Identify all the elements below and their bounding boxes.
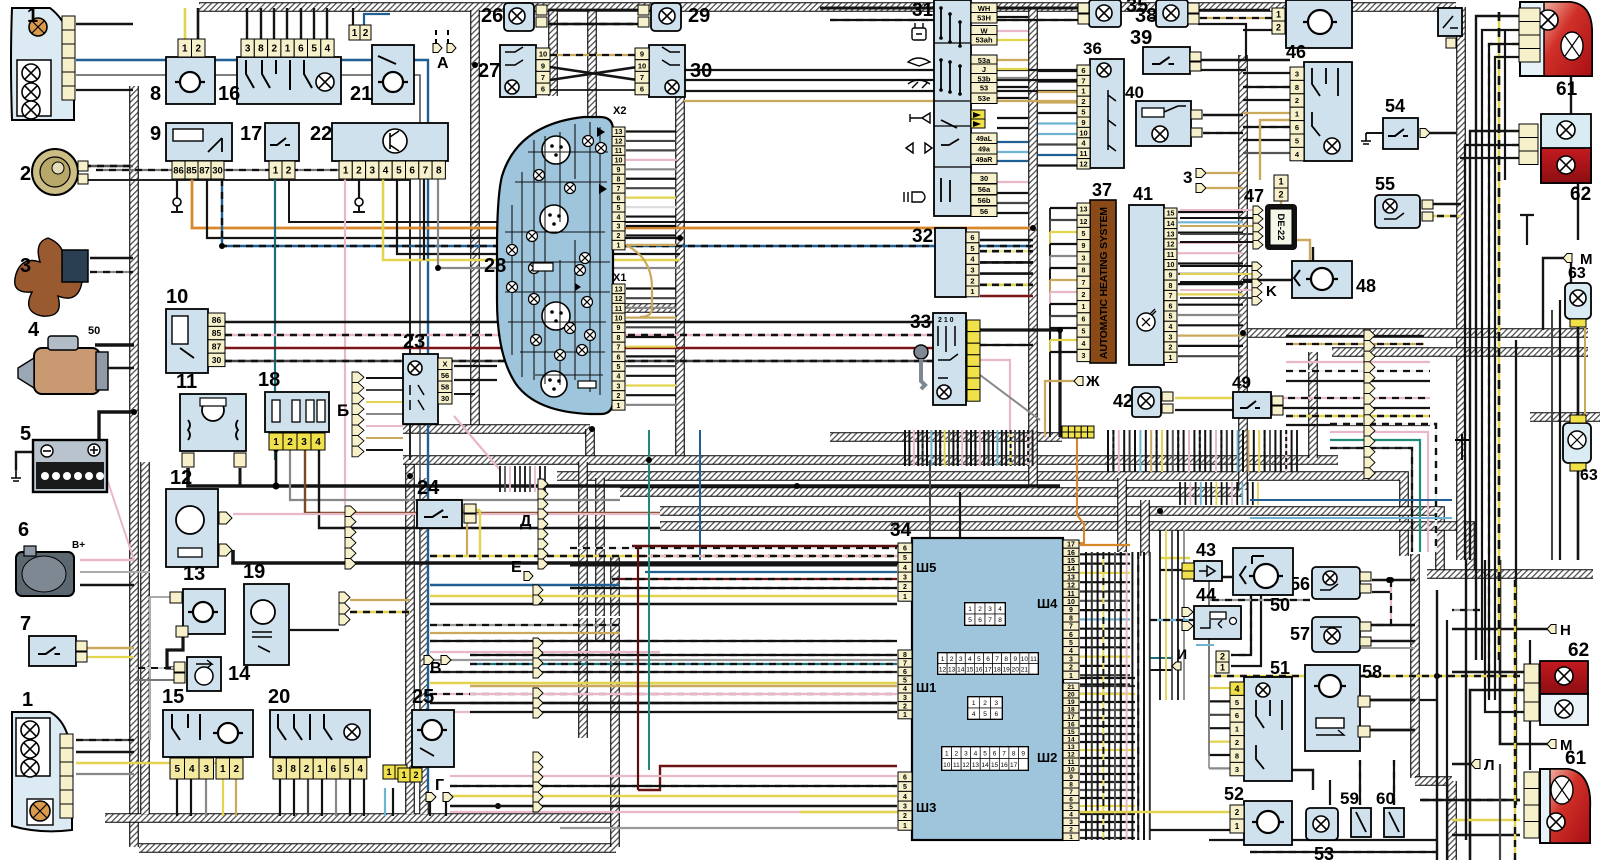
svg-text:1: 1 xyxy=(617,403,621,410)
svg-text:2: 2 xyxy=(903,703,907,710)
svg-text:7: 7 xyxy=(541,73,545,82)
svg-text:2: 2 xyxy=(287,437,293,448)
svg-text:4: 4 xyxy=(617,214,621,221)
svg-text:5: 5 xyxy=(344,764,350,775)
svg-text:12: 12 xyxy=(1080,219,1088,226)
svg-text:2: 2 xyxy=(286,166,292,177)
svg-text:3: 3 xyxy=(903,695,907,702)
svg-text:Ж: Ж xyxy=(1085,373,1100,390)
svg-text:63: 63 xyxy=(1580,467,1598,484)
svg-text:18: 18 xyxy=(993,666,1001,673)
svg-text:1: 1 xyxy=(182,44,188,55)
svg-text:87: 87 xyxy=(199,165,210,176)
svg-text:30: 30 xyxy=(212,165,223,176)
svg-text:85: 85 xyxy=(186,165,197,176)
svg-text:17: 17 xyxy=(1010,762,1018,769)
svg-text:20: 20 xyxy=(268,686,290,708)
svg-text:21: 21 xyxy=(1021,666,1029,673)
svg-text:1: 1 xyxy=(968,606,972,613)
svg-text:12: 12 xyxy=(615,296,623,303)
svg-text:AUTOMATIC HEATING SYSTEM: AUTOMATIC HEATING SYSTEM xyxy=(1098,207,1110,359)
svg-text:27: 27 xyxy=(478,60,500,82)
svg-text:85: 85 xyxy=(212,328,222,338)
svg-text:2: 2 xyxy=(356,166,362,177)
svg-text:56a: 56a xyxy=(978,185,991,194)
svg-text:Ш3: Ш3 xyxy=(916,800,936,815)
svg-text:5: 5 xyxy=(977,656,981,663)
svg-text:10: 10 xyxy=(539,50,547,59)
svg-text:1: 1 xyxy=(386,767,391,777)
svg-text:Ш1: Ш1 xyxy=(916,680,936,695)
svg-text:8: 8 xyxy=(617,335,621,342)
svg-text:21: 21 xyxy=(350,83,372,105)
svg-text:6: 6 xyxy=(1169,303,1173,310)
svg-text:7: 7 xyxy=(988,617,992,624)
svg-text:9: 9 xyxy=(1021,750,1025,757)
svg-text:61: 61 xyxy=(1556,79,1578,100)
svg-text:11: 11 xyxy=(1080,149,1088,158)
svg-text:24: 24 xyxy=(417,477,440,499)
svg-text:1: 1 xyxy=(317,764,323,775)
svg-text:7: 7 xyxy=(617,345,621,352)
svg-text:13: 13 xyxy=(972,762,980,769)
svg-text:4: 4 xyxy=(1169,324,1173,331)
svg-text:3: 3 xyxy=(903,803,907,810)
svg-text:39: 39 xyxy=(1130,27,1152,49)
svg-text:4: 4 xyxy=(903,686,907,693)
svg-text:X: X xyxy=(442,359,447,368)
svg-text:15: 15 xyxy=(1067,558,1075,565)
svg-text:1: 1 xyxy=(22,689,33,711)
svg-text:6: 6 xyxy=(1235,711,1239,720)
svg-text:2: 2 xyxy=(950,656,954,663)
svg-text:WH: WH xyxy=(978,4,991,13)
svg-text:X1: X1 xyxy=(613,272,626,284)
svg-text:2: 2 xyxy=(1082,292,1086,299)
svg-text:34: 34 xyxy=(890,520,912,541)
svg-text:57: 57 xyxy=(1290,624,1310,644)
svg-text:5: 5 xyxy=(174,764,180,775)
svg-text:6: 6 xyxy=(617,195,621,202)
svg-text:Л: Л xyxy=(1484,757,1495,774)
svg-text:14: 14 xyxy=(1067,566,1075,573)
svg-text:16: 16 xyxy=(975,666,983,673)
svg-text:2: 2 xyxy=(970,276,974,285)
svg-text:31: 31 xyxy=(912,0,934,21)
svg-text:40: 40 xyxy=(1125,83,1144,102)
svg-text:4: 4 xyxy=(325,44,331,55)
svg-text:3: 3 xyxy=(617,383,621,390)
svg-text:3: 3 xyxy=(369,166,375,177)
svg-text:52: 52 xyxy=(1224,784,1244,804)
svg-text:50: 50 xyxy=(88,325,100,337)
svg-text:DE-22: DE-22 xyxy=(1275,214,1286,241)
svg-text:1: 1 xyxy=(1278,177,1283,187)
svg-text:5: 5 xyxy=(983,711,987,718)
svg-text:2: 2 xyxy=(271,44,277,55)
svg-text:9: 9 xyxy=(1013,656,1017,663)
svg-text:6: 6 xyxy=(995,711,999,718)
svg-text:44: 44 xyxy=(1196,585,1216,605)
svg-text:6: 6 xyxy=(331,764,337,775)
svg-text:5: 5 xyxy=(1082,329,1086,336)
svg-text:59: 59 xyxy=(1340,789,1359,808)
svg-text:4: 4 xyxy=(617,374,621,381)
svg-text:1: 1 xyxy=(1220,663,1225,673)
svg-text:1: 1 xyxy=(1235,725,1239,734)
svg-text:7: 7 xyxy=(1082,280,1086,287)
svg-text:30: 30 xyxy=(980,174,988,183)
svg-text:X2: X2 xyxy=(613,105,626,117)
svg-text:4: 4 xyxy=(1069,648,1073,655)
svg-text:6: 6 xyxy=(409,166,415,177)
svg-text:9: 9 xyxy=(1082,243,1086,250)
svg-text:11: 11 xyxy=(1167,252,1175,259)
svg-text:8: 8 xyxy=(1082,268,1086,275)
svg-text:15: 15 xyxy=(162,686,184,708)
svg-text:12: 12 xyxy=(170,467,192,489)
svg-text:5: 5 xyxy=(903,555,907,562)
svg-text:2: 2 xyxy=(978,606,982,613)
svg-text:60: 60 xyxy=(1376,789,1395,808)
svg-text:7: 7 xyxy=(1069,624,1073,631)
svg-text:2: 2 xyxy=(955,750,959,757)
svg-text:6: 6 xyxy=(298,44,304,55)
svg-text:9: 9 xyxy=(617,325,621,332)
svg-text:16: 16 xyxy=(1000,762,1008,769)
svg-text:2: 2 xyxy=(1069,665,1073,672)
svg-text:28: 28 xyxy=(484,255,506,277)
svg-text:54: 54 xyxy=(1385,96,1405,116)
svg-text:46: 46 xyxy=(1286,42,1306,62)
svg-text:8: 8 xyxy=(436,166,442,177)
svg-text:11: 11 xyxy=(1067,591,1075,598)
svg-text:7: 7 xyxy=(640,73,644,82)
svg-text:2: 2 xyxy=(1081,97,1085,106)
svg-text:10: 10 xyxy=(166,286,188,308)
svg-text:3: 3 xyxy=(203,764,209,775)
svg-text:5: 5 xyxy=(617,205,621,212)
svg-text:Г: Г xyxy=(435,777,444,794)
svg-text:14: 14 xyxy=(228,663,251,685)
svg-text:13: 13 xyxy=(948,666,956,673)
svg-text:8: 8 xyxy=(1169,283,1173,290)
svg-text:1: 1 xyxy=(945,750,949,757)
svg-text:2: 2 xyxy=(1278,190,1283,200)
svg-text:4: 4 xyxy=(968,656,972,663)
svg-text:2: 2 xyxy=(1295,96,1299,105)
svg-text:5: 5 xyxy=(1295,136,1299,145)
svg-text:15: 15 xyxy=(966,666,974,673)
svg-text:12: 12 xyxy=(962,762,970,769)
svg-text:2: 2 xyxy=(1220,652,1225,662)
svg-text:6: 6 xyxy=(970,233,974,242)
svg-text:10: 10 xyxy=(615,315,623,322)
svg-text:8: 8 xyxy=(998,617,1002,624)
svg-text:10: 10 xyxy=(1067,599,1075,606)
svg-text:6: 6 xyxy=(978,617,982,624)
svg-text:15: 15 xyxy=(1167,211,1175,218)
svg-text:1: 1 xyxy=(273,437,279,448)
svg-text:2: 2 xyxy=(20,163,31,185)
svg-text:5: 5 xyxy=(1069,640,1073,647)
svg-text:86: 86 xyxy=(212,315,222,325)
svg-text:1: 1 xyxy=(285,44,291,55)
svg-text:13: 13 xyxy=(1080,207,1088,214)
svg-text:4: 4 xyxy=(357,764,363,775)
svg-text:11: 11 xyxy=(1030,656,1037,663)
svg-text:1: 1 xyxy=(27,5,38,27)
svg-text:53: 53 xyxy=(980,83,988,92)
svg-text:8: 8 xyxy=(150,83,161,105)
svg-text:6: 6 xyxy=(986,656,990,663)
svg-text:49a: 49a xyxy=(978,146,990,153)
svg-text:8: 8 xyxy=(258,44,264,55)
svg-text:4: 4 xyxy=(972,711,976,718)
svg-text:3: 3 xyxy=(245,44,251,55)
svg-text:6: 6 xyxy=(1295,123,1299,132)
svg-text:3: 3 xyxy=(1169,334,1173,341)
svg-text:6: 6 xyxy=(903,669,907,676)
svg-text:86: 86 xyxy=(173,165,184,176)
svg-text:19: 19 xyxy=(1003,666,1011,673)
svg-text:1: 1 xyxy=(617,243,621,250)
svg-text:Д: Д xyxy=(520,513,532,530)
svg-text:11: 11 xyxy=(615,306,623,313)
svg-text:8: 8 xyxy=(1069,615,1073,622)
svg-text:62: 62 xyxy=(1570,184,1591,205)
svg-text:1: 1 xyxy=(941,656,945,663)
svg-text:2: 2 xyxy=(1235,808,1240,817)
svg-text:1: 1 xyxy=(220,764,226,775)
svg-text:7: 7 xyxy=(995,656,999,663)
svg-text:10: 10 xyxy=(1167,262,1175,269)
svg-text:8: 8 xyxy=(1012,750,1016,757)
svg-text:5: 5 xyxy=(903,784,907,791)
svg-text:2: 2 xyxy=(1169,345,1173,352)
svg-text:56b: 56b xyxy=(978,196,991,205)
svg-text:4: 4 xyxy=(1234,684,1239,694)
svg-text:Ш5: Ш5 xyxy=(916,560,936,575)
svg-text:1: 1 xyxy=(1276,10,1281,20)
svg-text:13: 13 xyxy=(1067,574,1075,581)
svg-text:49aR: 49aR xyxy=(976,157,993,164)
svg-text:10: 10 xyxy=(638,61,646,70)
svg-text:13: 13 xyxy=(183,563,205,585)
svg-text:50: 50 xyxy=(1270,595,1290,615)
svg-text:4: 4 xyxy=(903,794,907,801)
svg-text:8: 8 xyxy=(617,176,621,183)
svg-text:36: 36 xyxy=(1083,39,1102,58)
svg-text:3: 3 xyxy=(1069,656,1073,663)
svg-text:3: 3 xyxy=(903,574,907,581)
svg-text:3: 3 xyxy=(1082,353,1086,360)
svg-text:15: 15 xyxy=(991,762,999,769)
svg-text:1: 1 xyxy=(903,712,907,719)
svg-text:7: 7 xyxy=(1081,76,1085,85)
svg-text:3: 3 xyxy=(617,224,621,231)
svg-text:2: 2 xyxy=(363,28,369,39)
svg-text:12: 12 xyxy=(939,666,947,673)
svg-text:58: 58 xyxy=(1362,662,1382,682)
svg-text:Б: Б xyxy=(337,401,349,420)
svg-text:30: 30 xyxy=(690,60,712,82)
svg-text:3: 3 xyxy=(1183,168,1192,187)
svg-text:8: 8 xyxy=(903,652,907,659)
svg-text:63: 63 xyxy=(1568,265,1586,282)
svg-text:1: 1 xyxy=(903,823,907,830)
svg-text:6: 6 xyxy=(903,774,907,781)
svg-text:5: 5 xyxy=(20,423,31,445)
svg-text:53: 53 xyxy=(1314,844,1334,864)
svg-text:5: 5 xyxy=(1081,108,1085,117)
svg-text:26: 26 xyxy=(481,5,503,27)
svg-text:11: 11 xyxy=(953,762,960,769)
svg-text:6: 6 xyxy=(541,85,545,94)
svg-text:1: 1 xyxy=(1169,355,1173,362)
svg-text:6: 6 xyxy=(1082,316,1086,323)
svg-text:4: 4 xyxy=(189,764,195,775)
svg-text:1: 1 xyxy=(1069,673,1073,680)
svg-text:5: 5 xyxy=(970,244,974,253)
svg-text:56: 56 xyxy=(980,207,988,216)
svg-text:10: 10 xyxy=(615,158,623,165)
svg-text:8: 8 xyxy=(290,764,296,775)
svg-text:6: 6 xyxy=(1069,632,1073,639)
svg-text:9: 9 xyxy=(1069,607,1073,614)
svg-text:9: 9 xyxy=(640,50,644,59)
svg-text:И: И xyxy=(1177,646,1187,662)
svg-text:48: 48 xyxy=(1356,276,1376,296)
svg-text:18: 18 xyxy=(258,369,280,391)
svg-text:58: 58 xyxy=(441,382,449,391)
svg-text:22: 22 xyxy=(310,123,332,145)
svg-text:B+: B+ xyxy=(72,540,85,551)
svg-text:20: 20 xyxy=(1012,666,1020,673)
svg-text:4: 4 xyxy=(383,166,389,177)
svg-text:29: 29 xyxy=(688,5,710,27)
svg-text:12: 12 xyxy=(1167,242,1175,249)
svg-text:14: 14 xyxy=(981,762,989,769)
svg-text:5: 5 xyxy=(1235,698,1239,707)
svg-text:3: 3 xyxy=(1235,765,1239,774)
svg-text:2 1 0: 2 1 0 xyxy=(938,317,954,324)
svg-text:1: 1 xyxy=(273,166,279,177)
svg-text:3: 3 xyxy=(20,255,31,277)
svg-text:53ah: 53ah xyxy=(975,35,993,44)
svg-text:1: 1 xyxy=(970,287,974,296)
svg-text:9: 9 xyxy=(541,61,545,70)
svg-text:8: 8 xyxy=(1235,751,1239,760)
svg-text:1: 1 xyxy=(343,166,349,177)
svg-text:1: 1 xyxy=(401,770,406,780)
svg-text:3: 3 xyxy=(1082,255,1086,262)
svg-text:5: 5 xyxy=(396,166,402,177)
svg-text:2: 2 xyxy=(413,770,418,780)
svg-text:17: 17 xyxy=(984,666,992,673)
svg-text:10: 10 xyxy=(1021,656,1029,663)
svg-text:5: 5 xyxy=(1082,231,1086,238)
svg-text:9: 9 xyxy=(150,123,161,145)
svg-text:14: 14 xyxy=(957,666,965,673)
svg-text:3: 3 xyxy=(301,437,307,448)
svg-text:5: 5 xyxy=(1169,314,1173,321)
svg-text:55: 55 xyxy=(1375,174,1395,194)
svg-text:2: 2 xyxy=(903,584,907,591)
svg-text:7: 7 xyxy=(1169,293,1173,300)
svg-text:12: 12 xyxy=(1079,160,1087,169)
svg-text:7: 7 xyxy=(1002,750,1006,757)
svg-text:6: 6 xyxy=(903,545,907,552)
svg-text:2: 2 xyxy=(617,393,621,400)
svg-text:43: 43 xyxy=(1196,540,1216,560)
svg-text:7: 7 xyxy=(20,613,31,635)
svg-text:4: 4 xyxy=(974,750,978,757)
svg-text:62: 62 xyxy=(1568,640,1589,661)
svg-text:6: 6 xyxy=(993,750,997,757)
svg-text:5: 5 xyxy=(903,678,907,685)
svg-text:8: 8 xyxy=(1004,656,1008,663)
svg-text:12: 12 xyxy=(615,139,623,146)
svg-text:12: 12 xyxy=(1067,583,1075,590)
svg-text:Ш2: Ш2 xyxy=(1037,750,1057,765)
svg-text:Н: Н xyxy=(1560,622,1571,639)
svg-text:1: 1 xyxy=(1081,87,1085,96)
svg-text:37: 37 xyxy=(1092,180,1112,200)
svg-text:23: 23 xyxy=(403,331,425,353)
svg-text:9: 9 xyxy=(617,167,621,174)
svg-text:6: 6 xyxy=(640,85,644,94)
svg-text:16: 16 xyxy=(1067,550,1075,557)
svg-text:1: 1 xyxy=(1235,822,1240,831)
svg-text:8: 8 xyxy=(1295,83,1299,92)
svg-text:2: 2 xyxy=(195,44,201,55)
svg-text:3: 3 xyxy=(277,764,283,775)
svg-text:2: 2 xyxy=(617,233,621,240)
svg-text:2: 2 xyxy=(1235,738,1239,747)
svg-text:Е: Е xyxy=(511,559,522,576)
svg-text:7: 7 xyxy=(903,660,907,667)
svg-text:25: 25 xyxy=(412,686,434,708)
svg-text:5: 5 xyxy=(617,364,621,371)
svg-text:5: 5 xyxy=(983,750,987,757)
svg-text:1: 1 xyxy=(972,700,976,707)
svg-text:2: 2 xyxy=(903,813,907,820)
svg-text:7: 7 xyxy=(617,186,621,193)
svg-text:13: 13 xyxy=(615,129,623,136)
svg-text:9: 9 xyxy=(1081,118,1085,127)
svg-text:1: 1 xyxy=(1082,304,1086,311)
svg-text:87: 87 xyxy=(212,342,222,352)
svg-text:3: 3 xyxy=(1295,69,1299,78)
svg-text:11: 11 xyxy=(615,148,623,155)
svg-text:5: 5 xyxy=(968,617,972,624)
svg-text:10: 10 xyxy=(1079,128,1087,137)
svg-text:41: 41 xyxy=(1133,184,1153,204)
svg-text:19: 19 xyxy=(243,561,265,583)
svg-text:5: 5 xyxy=(311,44,317,55)
svg-text:32: 32 xyxy=(912,226,933,247)
svg-text:K: K xyxy=(1266,283,1277,300)
svg-text:3: 3 xyxy=(995,700,999,707)
svg-text:47: 47 xyxy=(1244,186,1264,206)
svg-text:2: 2 xyxy=(304,764,310,775)
svg-text:17: 17 xyxy=(1067,542,1075,549)
svg-text:9: 9 xyxy=(1169,272,1173,279)
svg-text:42: 42 xyxy=(1113,391,1133,411)
svg-text:10: 10 xyxy=(943,762,951,769)
svg-text:51: 51 xyxy=(1270,658,1290,678)
